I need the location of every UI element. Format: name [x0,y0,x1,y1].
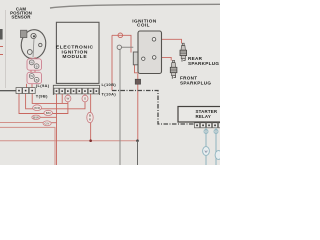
svg-text:B: B [36,64,38,68]
svg-text:T(9B): T(9B) [36,93,48,98]
svg-text:W/R: W/R [34,106,41,110]
svg-text:W: W [66,97,69,101]
svg-text:SPARKPLUG: SPARKPLUG [180,81,211,86]
svg-text:(L(9A): (L(9A) [36,83,50,88]
svg-text:MODULE: MODULE [62,54,87,60]
svg-text:B/R: B/R [46,111,52,115]
svg-text:COIL: COIL [137,23,150,28]
svg-text:T(10A): T(10A) [102,91,117,96]
svg-text:W: W [30,61,33,65]
svg-text:G/Y: G/Y [45,122,50,126]
svg-text:B: B [36,78,38,82]
svg-text:L(10B): L(10B) [102,82,117,87]
svg-text:W: W [205,150,208,154]
svg-text:B/W: B/W [33,116,39,120]
svg-text:SENSOR: SENSOR [11,14,31,19]
svg-text:RELAY: RELAY [196,114,211,119]
svg-text:W: W [30,74,33,78]
svg-text:SPARKPLUG: SPARKPLUG [188,61,219,66]
